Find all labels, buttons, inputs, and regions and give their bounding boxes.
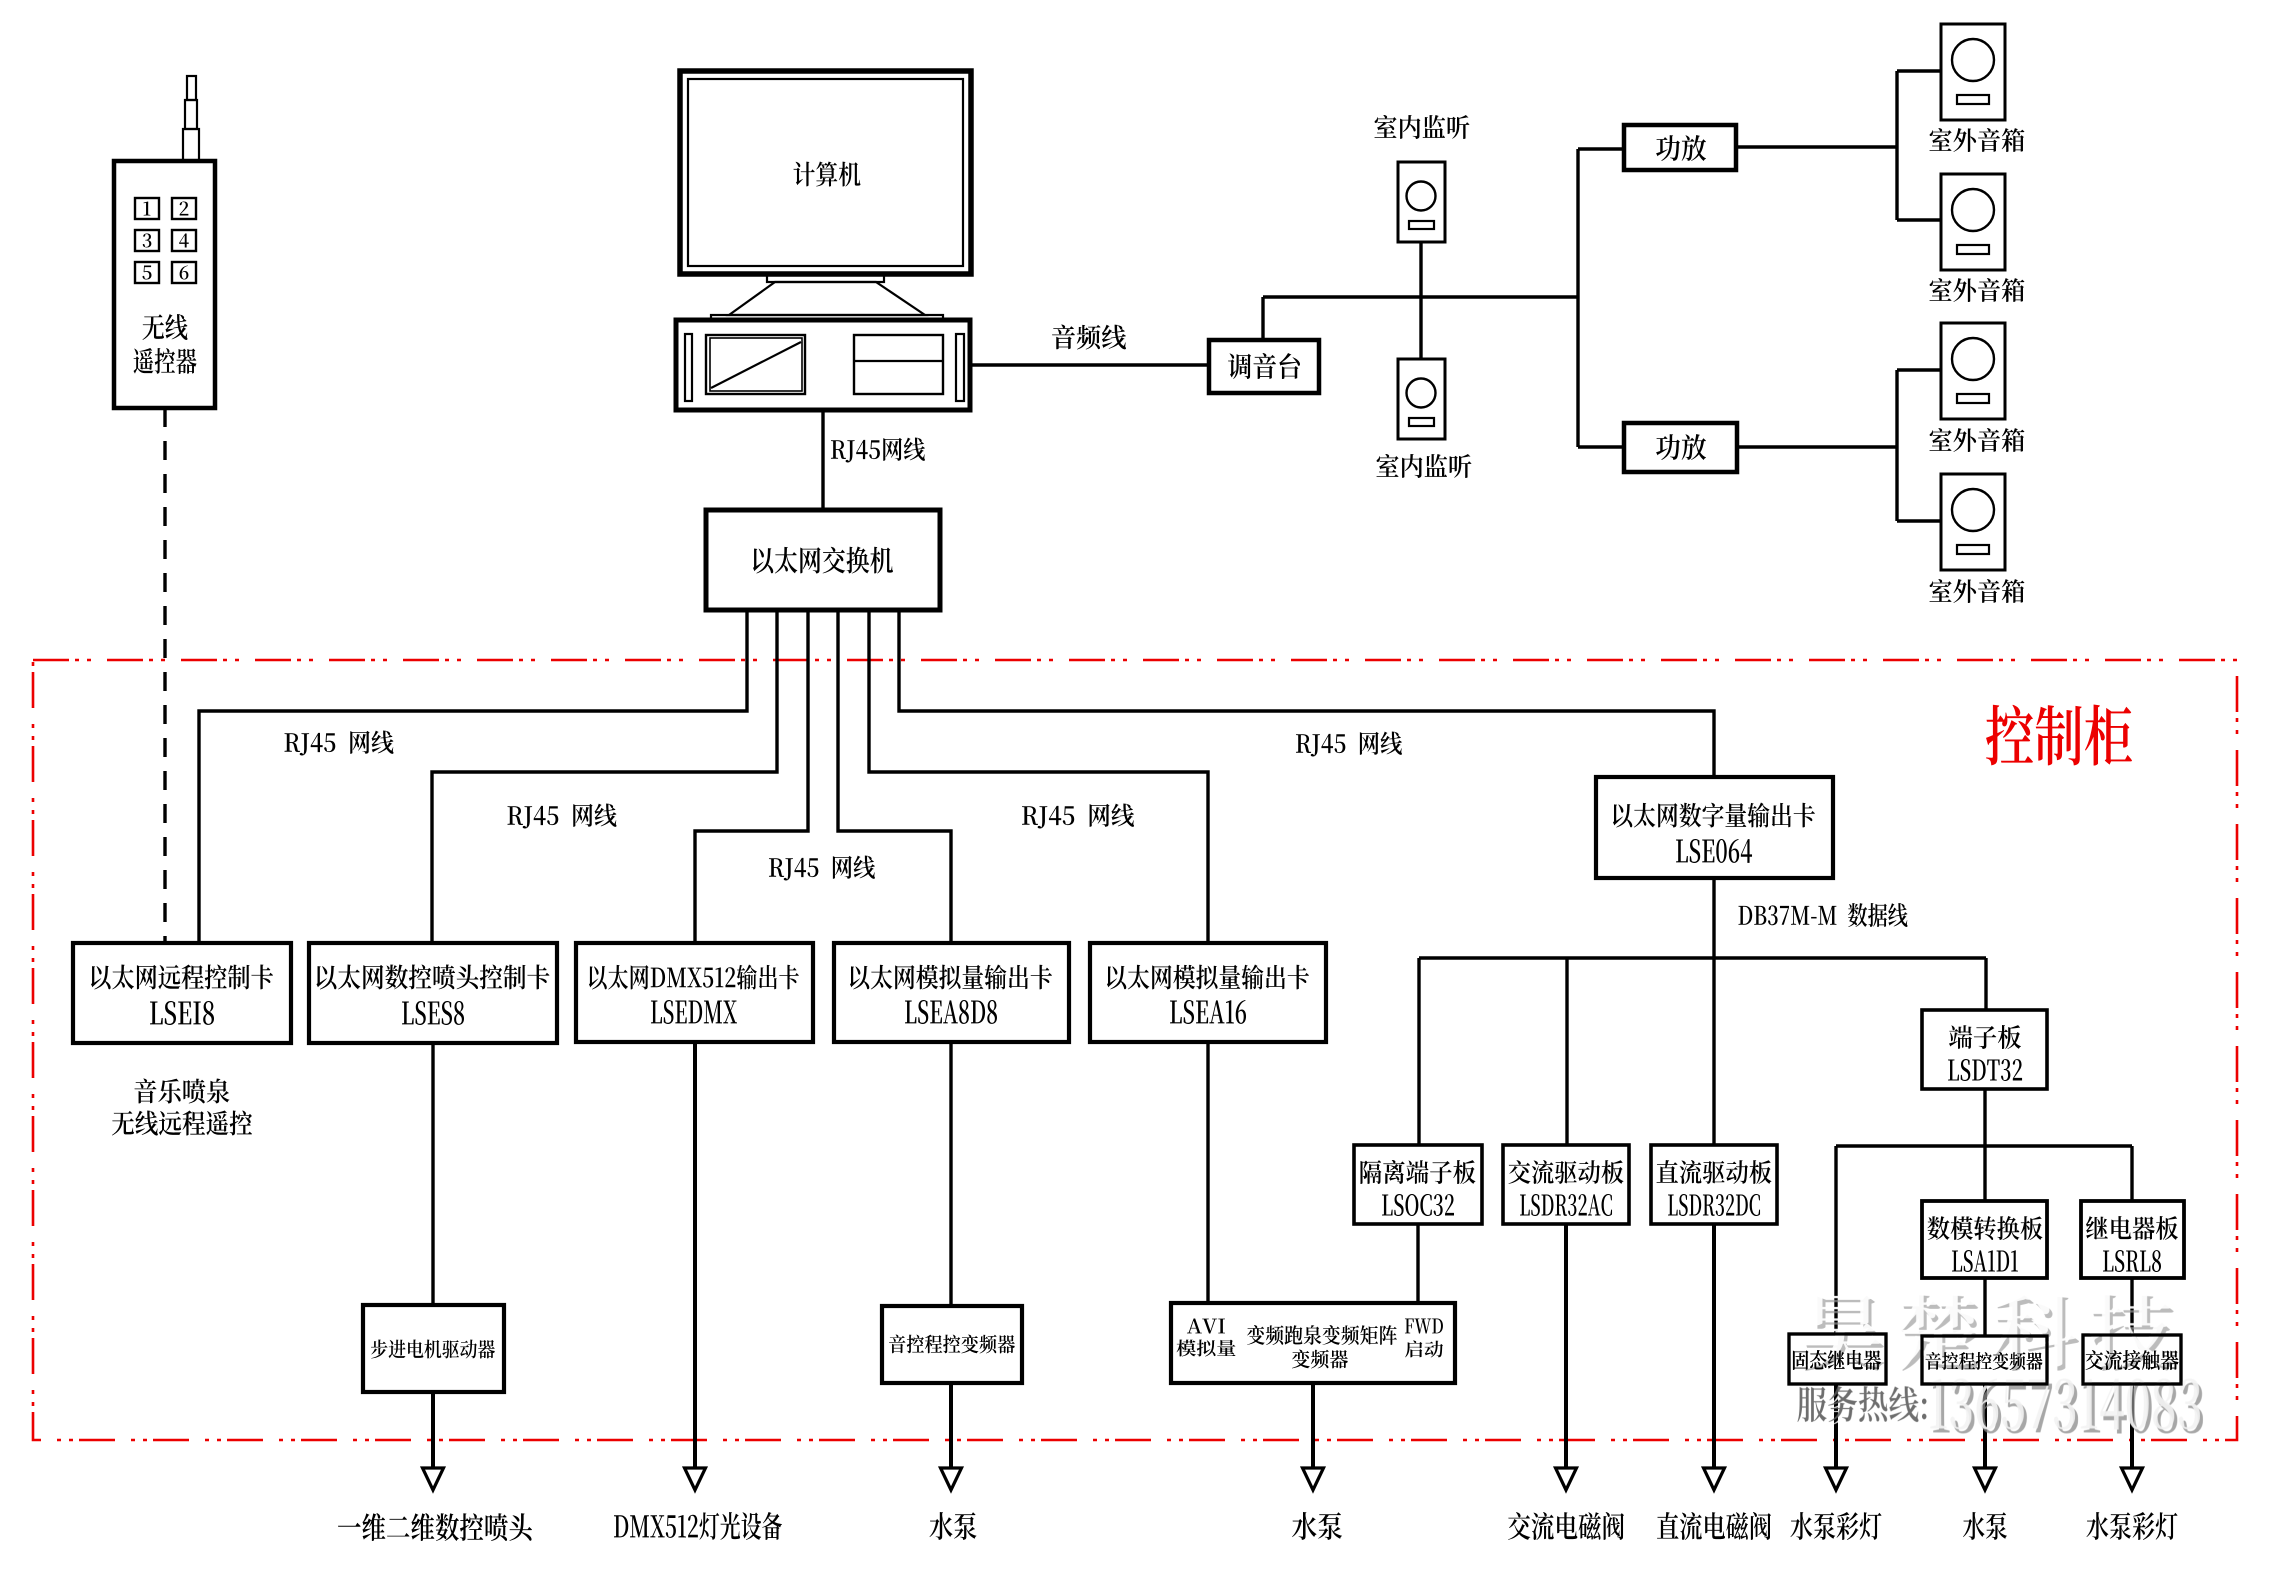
card LSE064 以太网数字量输出卡 (1596, 777, 1833, 878)
watermark 昊楚科技 with phone number (1805, 1295, 2175, 1371)
wire amp1 to speakers (1736, 145, 1897, 148)
mixer box 调音台 (1209, 340, 1319, 393)
DA converter board LSA1D1 数模转换板 (1922, 1201, 2047, 1278)
ethernet switch 以太网交换机 (706, 510, 940, 610)
label 音乐喷泉 (134, 1078, 229, 1103)
arrow to pump 3 (1983, 1384, 1987, 1477)
wire switch port3 to LSEDMX (695, 610, 808, 943)
monitor stand (767, 274, 884, 282)
sub-bus drop to LSA1D1 (1983, 1146, 1986, 1201)
outdoor speaker 2 (1941, 174, 2005, 270)
computer monitor outer (680, 71, 971, 274)
arrow to AC solenoid valve (1564, 1224, 1568, 1477)
amplifier 1 功放 (1624, 125, 1736, 170)
bus drop to LSOC32 (1417, 958, 1420, 1145)
outdoor speaker 1 (1941, 24, 2005, 120)
remote label line1 (143, 314, 188, 340)
label RJ45 cable 1 (285, 730, 394, 755)
card LSES8 以太网数控喷头控制卡 (309, 943, 557, 1043)
remote label line2 (134, 348, 197, 374)
wire switch port4 to LSEA8D8 (838, 610, 951, 943)
amp branch vertical (1576, 149, 1579, 447)
control cabinet red dashed border 控制柜 (33, 660, 2237, 1440)
label outdoor speaker 4 (1929, 579, 2024, 603)
label 计算机 (computer) (793, 162, 860, 187)
wire LSDT32 to sub-bus (1983, 1089, 1986, 1146)
wire LSA1D1 to inverter (1983, 1278, 1986, 1336)
arrow to pump 2 (1311, 1383, 1315, 1477)
wire LSES8 to stepper driver (431, 1043, 434, 1305)
label 水泵 2 (1292, 1512, 1342, 1540)
sub-bus drop to solid state relay (1834, 1146, 1837, 1334)
arrow to pump (949, 1383, 953, 1477)
arrow to DC solenoid valve (1712, 1224, 1716, 1477)
label 直流电磁阀 (1657, 1512, 1771, 1540)
solid state relay box 固态继电器 (1789, 1334, 1886, 1384)
bus drop to LSDT32 (1984, 958, 1987, 1010)
speaker branch vertical top (1895, 71, 1898, 220)
arrow to nozzles (431, 1392, 435, 1477)
label 水泵彩灯 1 (1790, 1512, 1881, 1540)
label outdoor speaker 1 (1929, 128, 2024, 152)
case cd drive (854, 335, 943, 394)
wire between indoor monitors (1419, 242, 1422, 359)
wire LSRL8 to AC contactor (2130, 1278, 2133, 1335)
terminal board LSDT32 端子板 (1922, 1010, 2047, 1089)
audio bus horizontal (1263, 295, 1578, 298)
wireless remote antenna (187, 76, 196, 100)
label RJ45 cable 4 (769, 855, 875, 880)
LSDT32 sub-bus horizontal (1836, 1144, 2132, 1147)
wire switch port1 to LSEI8 (199, 610, 747, 943)
indoor monitor speaker top (1398, 162, 1445, 242)
wire mixer to audio bus (1261, 297, 1264, 340)
wire LSEDMX down to DMX512 devices (693, 1042, 697, 1470)
card LSEI8 以太网远程控制卡 (73, 943, 291, 1043)
wire to speaker1 (1897, 69, 1941, 72)
case left vent slot (685, 334, 692, 401)
solid state relay box redraw 固态继电器 (1789, 1334, 1886, 1384)
relay board LSRL8 继电器板 (2081, 1201, 2184, 1278)
label indoor monitor bottom (1376, 454, 1471, 478)
label 控制柜 (red) (1986, 705, 2132, 766)
bus drop to LSDR32AC (1565, 958, 1568, 1145)
outdoor speaker 4 (1941, 474, 2005, 570)
wire to speaker4 (1897, 519, 1941, 522)
card LSEA16 以太网模拟量输出卡 (1090, 943, 1326, 1042)
audio program inverter box redraw 音控程控变频器 (1922, 1336, 2047, 1384)
amplifier 2 功放 (1624, 423, 1737, 472)
case right vent slot (956, 334, 964, 401)
AC contactor box 交流接触器 (2083, 1335, 2181, 1384)
label 无线远程遥控 (112, 1110, 252, 1135)
arrow to pump lights (1834, 1384, 1838, 1477)
dashed wireless link from remote to LSEI8 (163, 408, 166, 943)
wire LSEA8D8 to inverter (949, 1042, 952, 1306)
frequency matrix inverter box 变频跑泉变频矩阵变频器 (1171, 1303, 1455, 1383)
wire switch port2 to LSES8 (432, 610, 777, 943)
label 音频线 (audio cable) (1052, 325, 1126, 350)
wire LSOC32 to FWD input (1416, 1224, 1419, 1303)
audio program inverter 音控程控变频器 (882, 1306, 1022, 1383)
DB37 bus horizontal (1419, 956, 1986, 959)
stepper motor driver 步进电机驱动器 (363, 1305, 504, 1392)
label RJ45 cable 5 (1296, 731, 1402, 756)
speaker branch vertical bottom (1895, 370, 1898, 521)
AC driver board LSDR32AC 交流驱动板 (1503, 1145, 1629, 1224)
label DMX512灯光设备 (614, 1512, 782, 1540)
wire LSEA16 to matrix inverter (1206, 1042, 1209, 1303)
wire to speaker2 (1897, 218, 1941, 221)
AC contactor box redraw 交流接触器 (2083, 1335, 2181, 1384)
arrow to pump lights 2 (2130, 1384, 2134, 1477)
indoor monitor speaker bottom (1398, 359, 1445, 439)
computer case (676, 320, 970, 410)
DC driver board LSDR32DC 直流驱动板 (1651, 1145, 1777, 1224)
card LSEA8D8 以太网模拟量输出卡 (834, 943, 1069, 1042)
wire to amp1 (1578, 147, 1624, 150)
label 水泵 3 (1963, 1512, 2007, 1540)
card LSEDMX 以太网DMX512输出卡 (576, 943, 813, 1042)
label indoor monitor top (1374, 115, 1469, 139)
label DB37M-M data cable (1738, 903, 1907, 927)
computer monitor screen (688, 79, 963, 266)
audio cable from computer to mixer (970, 363, 1209, 366)
wire switch port6 to LSE064 (899, 610, 1714, 777)
bus drop to LSDR32DC (1712, 958, 1715, 1145)
label 水泵彩灯 2 (2086, 1512, 2177, 1540)
wire to speaker3 (1897, 368, 1941, 371)
wireless remote body (114, 161, 215, 408)
wire amp2 to speakers (1737, 445, 1897, 448)
case floppy drive with diagonal (706, 335, 805, 394)
wire LSE064 to DB37 bus (1712, 878, 1715, 958)
isolated terminal board LSOC32 隔离端子板 (1354, 1145, 1482, 1224)
sub-bus drop to LSRL8 (2130, 1146, 2133, 1201)
outdoor speaker 3 (1941, 323, 2005, 419)
remote buttons 1-6 (135, 198, 159, 219)
label 水泵 1 (930, 1512, 977, 1540)
wire to amp2 (1578, 445, 1624, 448)
label RJ45网线 (831, 437, 925, 462)
label RJ45 cable 3 (1022, 803, 1134, 828)
wire switch port5 to LSEA16 (869, 610, 1208, 943)
label RJ45 cable 2 (508, 803, 617, 828)
arrow to DMX512 lights (693, 1470, 697, 1477)
RJ45 wire computer to switch (821, 410, 824, 510)
label outdoor speaker 3 (1929, 428, 2024, 452)
audio program inverter box 音控程控变频器 (1922, 1336, 2047, 1384)
label 交流电磁阀 (1508, 1512, 1624, 1540)
label 一维二维数控喷头 (338, 1513, 532, 1541)
label outdoor speaker 2 (1929, 278, 2024, 302)
